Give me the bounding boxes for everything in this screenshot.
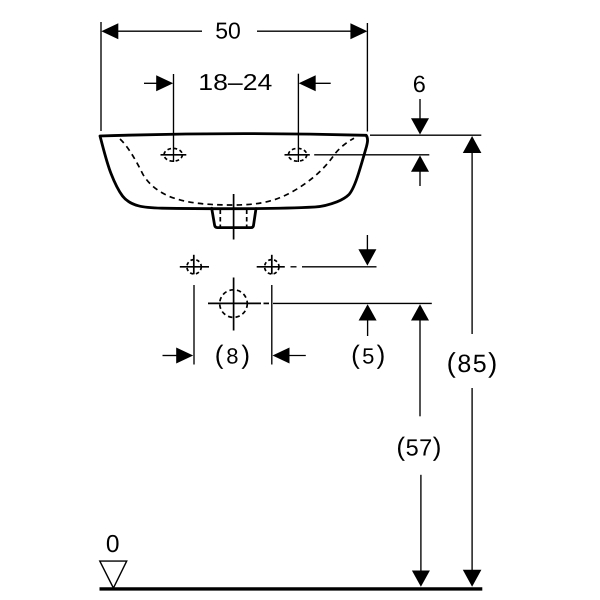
svg-text:(5): (5) (351, 340, 387, 370)
svg-text:(57): (57) (396, 432, 441, 462)
svg-text:18–24: 18–24 (198, 69, 272, 95)
svg-text:(85): (85) (447, 347, 499, 378)
svg-text:(8): (8) (215, 339, 253, 369)
svg-text:6: 6 (413, 71, 426, 97)
svg-text:50: 50 (215, 17, 241, 43)
svg-text:0: 0 (106, 531, 120, 558)
